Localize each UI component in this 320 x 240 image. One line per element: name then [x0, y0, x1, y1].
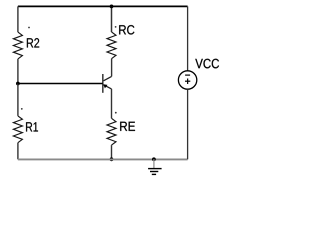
resistor RC: [107, 32, 116, 59]
node base junction dot: [16, 82, 20, 86]
wire top rail: [18, 5, 188, 7]
resistor R2: [13, 32, 22, 59]
wire bottom rail: [18, 158, 188, 160]
label dot R2: [28, 27, 30, 29]
label VCC: [195, 59, 219, 69]
label RE: [120, 122, 135, 131]
label R2: [27, 38, 39, 47]
source VCC plus sign: [185, 80, 190, 82]
wire RE bottom lead: [111, 145, 113, 159]
ground bar 3: [152, 173, 156, 175]
transistor Q1 base bar: [102, 74, 104, 93]
ground bar 2: [150, 171, 158, 173]
node ground junction dot: [152, 157, 156, 161]
wire right rail upper: [187, 6, 189, 70]
label R1: [26, 122, 38, 131]
node RE-ground junction dot: [110, 157, 114, 161]
wire base: [18, 83, 103, 85]
label RC: [119, 25, 134, 34]
transistor Q1 emitter arrow (PNP, pointing to base bar): [103, 84, 107, 88]
resistor RE: [107, 118, 116, 145]
label dot RC: [115, 26, 117, 28]
wire RC bottom lead to collector: [111, 59, 113, 77]
label dot RE: [115, 112, 117, 114]
ground stem: [153, 159, 155, 168]
wire emitter to RE: [111, 89, 113, 118]
wire R2 bottom lead to base node: [17, 59, 19, 84]
label dot R1: [21, 108, 23, 110]
ground bar 1: [148, 168, 162, 170]
resistor R1: [13, 116, 22, 143]
transistor Q1 collector lead: [104, 76, 112, 80]
source VCC circle: [178, 71, 196, 89]
wire left rail upper (R2 top lead): [17, 6, 19, 32]
wire left rail lower (R1 top lead): [17, 84, 19, 116]
wire RC top lead: [111, 6, 113, 32]
node top junction dot: [110, 5, 114, 9]
transistor Q1 emitter lead: [104, 85, 112, 89]
source VCC minus sign: [185, 74, 190, 76]
wire right rail lower: [187, 89, 189, 159]
wire R1 bottom lead: [17, 143, 19, 160]
